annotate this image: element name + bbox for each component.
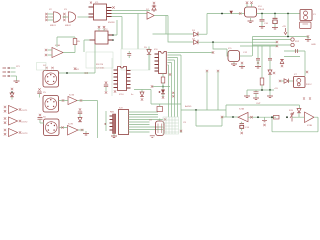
DIP IC10	[114, 67, 135, 97]
lower feedback rail	[272, 117, 318, 132]
wire diode D1 up to regulator input rail	[206, 14, 208, 35]
feedback resistor R5	[57, 37, 81, 53]
svg-text:+9V: +9V	[282, 26, 286, 28]
wire P1 to amp section riser	[59, 44, 96, 73]
pale frame box B1	[86, 52, 113, 68]
ground below regulator IC4	[250, 18, 252, 21]
riser net from IC7A	[97, 101, 99, 139]
op-amp IC7B	[59, 124, 84, 136]
svg-text:OUT1: OUT1	[22, 110, 29, 112]
ground symbol right end of rail	[307, 35, 309, 37]
junction dot rail	[221, 13, 223, 15]
resistor network RN1	[110, 112, 116, 134]
capacitor C6	[104, 82, 116, 94]
wire rail into regulator IC4	[207, 13, 245, 15]
capacitor C13 to ground	[255, 90, 257, 92]
long bottom rail	[181, 109, 226, 111]
regulator IC5 79L05	[228, 48, 252, 66]
junction dot and stub wire	[162, 86, 164, 88]
rail to filter caps	[240, 46, 277, 78]
buffer amp T4	[4, 129, 28, 137]
zener D10 vertical	[280, 60, 284, 68]
opto IC2	[84, 26, 113, 52]
diode D9 vertical	[297, 109, 301, 113]
svg-text:AGND: AGND	[185, 105, 192, 108]
svg-text:IC3A: IC3A	[55, 44, 60, 47]
node cross end of bus wire	[212, 51, 214, 53]
hatched socket area	[163, 117, 179, 134]
wire vertical drop x122	[121, 17, 123, 50]
wire vertical drop x138	[137, 14, 139, 50]
svg-text:IC7A: IC7A	[69, 94, 74, 97]
connector S2 MIDI-THRU gate symbol	[63, 9, 76, 27]
microcontroller IC8	[119, 108, 164, 135]
capacitor C10	[259, 14, 269, 29]
capacitor left of X6	[38, 114, 45, 123]
svg-text:IC10: IC10	[119, 94, 124, 96]
svg-text:IC9B: IC9B	[307, 125, 312, 127]
resistor R8 vertical	[161, 77, 165, 83]
svg-text:6N138: 6N138	[108, 22, 115, 24]
buffer amp T3	[4, 117, 28, 125]
riser net to RN1	[105, 111, 107, 131]
resistor R12 vertical	[260, 78, 264, 90]
bus verticals down	[169, 55, 182, 133]
part cluster C8 between amps	[78, 108, 82, 122]
node X at end of +raw net	[276, 41, 278, 43]
diode D8 into jack	[279, 79, 294, 84]
quartz Q1	[149, 118, 166, 137]
supply arrow on raw rail	[230, 11, 233, 14]
diode D2 horizontal	[192, 39, 277, 45]
op-amp IC7A	[59, 94, 98, 105]
wires DIP IC6 right pins	[168, 53, 214, 66]
net drop to lower audio rail	[196, 110, 222, 126]
svg-text:+5V: +5V	[274, 88, 278, 90]
connector S1 MIDI-IN gate symbol	[45, 9, 61, 27]
svg-text:C2 100n: C2 100n	[96, 68, 105, 70]
resistor R14	[274, 115, 280, 119]
wire T1 output to rectifier diodes	[153, 16, 194, 43]
wire op-amp output	[57, 37, 75, 53]
wire +5V output rail	[257, 13, 301, 15]
wire IC1 pin to net bundle	[112, 11, 151, 17]
capacitor C12 on rail	[296, 49, 298, 53]
capacitor C15 vertical	[243, 46, 272, 64]
long mid rail with ground at right	[253, 37, 309, 57]
top loop wire audio out	[226, 105, 300, 117]
pale frame box B2	[121, 49, 150, 70]
capacitor C16 vertical	[256, 46, 260, 64]
net stub label and end cross on x181	[180, 130, 182, 132]
ground mid feedback	[264, 117, 266, 120]
op-amp IC3A	[45, 44, 63, 58]
electrolytic cap C14	[240, 122, 250, 134]
pad dot	[159, 91, 161, 93]
svg-text:RN1: RN1	[110, 112, 115, 114]
svg-text:MIDI1: MIDI1	[50, 25, 57, 27]
power jack X1	[300, 10, 317, 29]
wire IC2 right pin up	[113, 20, 117, 35]
small part K1	[151, 104, 181, 112]
wire +5V drop to lower rail	[287, 14, 289, 37]
pin header JP1	[3, 66, 21, 83]
diode D1 horizontal	[192, 30, 207, 36]
ground drop left	[246, 90, 248, 96]
wire D2 net to regulator IC5	[213, 42, 229, 56]
DIN connector X6	[43, 117, 59, 136]
DIP IC6	[154, 49, 166, 74]
svg-text:OUT: OUT	[256, 103, 261, 105]
diode D7 vertical	[268, 64, 275, 90]
DIP IC6 bottom pin chain	[162, 74, 164, 78]
part cluster D6	[10, 88, 14, 100]
svg-text:OUT2: OUT2	[22, 122, 29, 124]
wire S2 out to optocoupler IC1	[78, 16, 89, 18]
LED1	[161, 90, 165, 94]
ground drop right	[269, 90, 271, 96]
junction dots on +5V rail	[261, 13, 263, 15]
audio rail into buffer B1	[222, 116, 238, 118]
svg-text:9VDC: 9VDC	[306, 84, 312, 86]
DIN connector X4	[43, 65, 59, 87]
small part inside frame B2	[127, 54, 131, 56]
+5 rail bottom with caps	[247, 89, 274, 91]
power jack X7	[294, 71, 313, 88]
node cross at IC1 pin 7	[112, 6, 114, 8]
ground marks below IC6	[169, 73, 171, 75]
wire B1 out	[248, 116, 277, 118]
capacitor left of X5	[37, 88, 41, 97]
electrolytic capacitor C11	[272, 14, 278, 30]
node cross at regulator input	[239, 12, 241, 14]
svg-text:IC7B: IC7B	[68, 124, 73, 126]
diode D4 vertical	[144, 47, 151, 71]
power amp B2	[296, 112, 318, 127]
op-amp/optocoupler IC1 6N138	[89, 2, 116, 24]
svg-text:78L05: 78L05	[258, 9, 265, 11]
voltage regulator IC4 78L05	[245, 2, 265, 18]
svg-text:IC9A: IC9A	[239, 108, 244, 111]
svg-text:R3 220: R3 220	[96, 64, 104, 66]
svg-text:GND: GND	[311, 44, 316, 46]
supply arrow symbol	[284, 28, 287, 35]
wire IC10 bottom pin to osc	[134, 90, 151, 105]
pale label frame above X4	[37, 63, 47, 71]
ground below RN1	[113, 134, 115, 137]
buffer B1	[238, 108, 248, 122]
svg-text:OUT3: OUT3	[22, 133, 29, 135]
ground near IC7B	[85, 131, 87, 134]
pale net stub mid sheet	[111, 58, 113, 96]
net verticals mid sheet	[207, 71, 218, 110]
2-pin connector SV2	[252, 38, 300, 47]
ground stub pair below regulator IC5	[239, 62, 261, 68]
DIN connector X5	[43, 92, 59, 112]
pin label marks on bus	[172, 92, 174, 98]
junction dot on D2 net	[212, 41, 214, 43]
diode D11 vertical	[140, 90, 144, 101]
buffer gate T1	[146, 9, 154, 19]
svg-text:MIDI2: MIDI2	[65, 25, 72, 27]
rails right middle	[284, 51, 305, 76]
trimmer R15	[289, 110, 296, 122]
diode D3 vertical with supply cross	[152, 2, 156, 12]
buffer amp T2	[4, 106, 28, 114]
small part R on P1 net	[74, 68, 76, 70]
